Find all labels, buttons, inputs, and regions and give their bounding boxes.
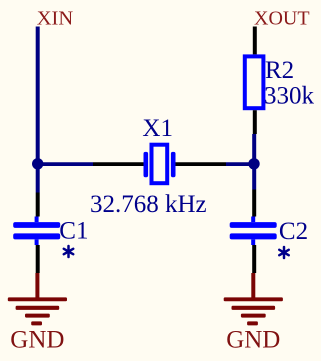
capacitor C2 bottom stub [251,239,255,245]
svg-text:GND: GND [10,327,64,354]
wire R2 pin 2 to right junction [252,134,256,164]
junction dot right (node XOUT) [248,158,259,169]
svg-text:C2: C2 [279,218,308,245]
capacitor C1 top plate [13,222,60,228]
junction dot left (node XIN) [32,158,43,169]
capacitor C2 top stub [251,217,255,223]
ground symbol left: bar 4 [31,321,42,325]
svg-text:330k: 330k [264,82,315,109]
svg-text:C1: C1 [59,218,88,245]
svg-text:XIN: XIN [37,8,74,30]
capacitor C2 top plate [230,222,277,228]
ground symbol left: bar 3 [25,314,50,318]
resistor R2 pin 1 (black, XOUT label to body) [253,27,257,55]
resistor R2 body [245,56,264,108]
crystal X1 left plate [144,152,149,177]
capacitor C1 pin 2 (black) [36,245,40,273]
wire crystal pin 2 to right junction [226,162,254,166]
crystal X1 right plate [171,152,176,177]
ground symbol right: bar 4 [247,321,258,325]
capacitor C2 pin 2 (black) [252,245,256,273]
svg-text:32.768 kHz: 32.768 kHz [90,191,207,218]
capacitor C2 bottom plate [230,233,277,239]
crystal X1 pin 1 (black) [93,162,144,166]
wire XIN vertical (label to left junction) [36,27,40,164]
crystal X1 body [152,145,168,184]
svg-text:R2: R2 [265,57,294,84]
crystal X1 pin 2 (black) [175,162,226,166]
svg-text:GND: GND [226,327,280,354]
ground symbol right: stub [251,273,255,299]
ground symbol left: bar 1 [8,297,67,301]
capacitor C1 top stub [35,217,39,223]
ground symbol right: bar 3 [241,314,266,318]
svg-text:XOUT: XOUT [254,8,310,30]
asterisk mark for C1 [64,246,73,257]
ground symbol left: stub [35,273,39,299]
capacitor C1 pin 1 (black) [36,193,40,217]
wire right junction down to C2 pin [252,164,256,190]
wire left junction down to C1 pin [36,164,40,193]
capacitor C1 bottom stub [35,239,39,245]
capacitor C2 pin 1 (black) [252,190,256,217]
capacitor C1 bottom plate [13,233,60,239]
ground symbol right: bar 1 [224,297,283,301]
wire left junction to crystal X1 pin 1 [38,162,93,166]
ground symbol left: bar 2 [16,306,60,310]
ground symbol right: bar 2 [232,306,276,310]
asterisk mark for C2 [279,247,288,258]
svg-text:X1: X1 [142,115,173,142]
resistor R2 pin 2 (black) [253,110,257,134]
